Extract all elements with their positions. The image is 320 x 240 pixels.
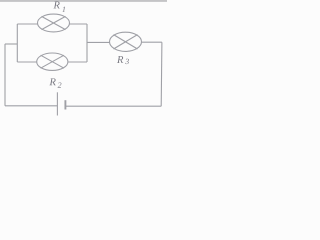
wire : top branch right — [70, 23, 88, 25]
wire : left vertical of outer loop — [4, 44, 6, 106]
wire : from lamp R3 to right side — [142, 41, 162, 43]
wire : right vertical of outer loop — [160, 42, 163, 106]
label R2 — [49, 78, 61, 87]
wire : top branch left — [17, 23, 37, 25]
lamp R3 — [110, 32, 142, 51]
node B : right junction bar of parallel section — [86, 24, 88, 62]
wire : left stub to outer loop — [5, 43, 17, 45]
wire : bottom right — [66, 105, 162, 107]
battery BT1 short plate — [64, 100, 66, 109]
lamp R2 — [37, 53, 68, 70]
node A : left junction bar of parallel section — [16, 24, 18, 62]
wire : bottom branch left — [17, 61, 37, 63]
top scan border band — [0, 0, 167, 2]
wire : bottom branch right — [68, 61, 87, 63]
label R3 — [117, 56, 129, 64]
lamp R1 — [38, 14, 70, 32]
wire : stub from node B to lamp R3 — [87, 41, 110, 43]
label R1 — [53, 2, 65, 12]
battery BT1 long plate — [56, 92, 58, 115]
wire : bottom left — [5, 105, 57, 107]
